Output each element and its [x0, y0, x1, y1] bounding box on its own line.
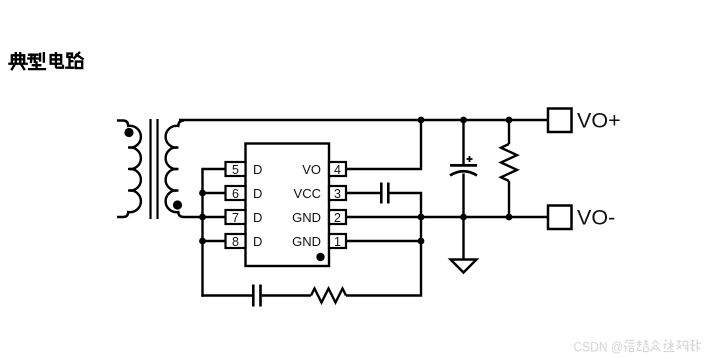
pin 7 square: [226, 210, 246, 224]
wire C3 to R2: [262, 294, 311, 296]
svg-text:3: 3: [334, 187, 341, 201]
pin 4 square: [329, 162, 346, 176]
wire C2 top lead: [462, 120, 464, 165]
svg-text:5: 5: [232, 163, 239, 177]
polarity dot primary: [124, 128, 133, 137]
ground: [451, 260, 477, 273]
wire pin7 stub: [203, 216, 226, 218]
junction GND riser / pin2 rail: [418, 214, 425, 221]
wire pin8 stub: [203, 240, 226, 242]
svg-text:8: 8: [232, 235, 239, 249]
wire C2 bottom lead: [462, 174, 464, 218]
IC pin1 indicator dot: [316, 253, 324, 261]
title 典型电路: [9, 53, 82, 69]
svg-text:7: 7: [232, 211, 239, 225]
pin 6 square: [226, 186, 246, 200]
svg-text:GND: GND: [292, 234, 321, 249]
pin 2 square: [329, 210, 346, 224]
svg-text:4: 4: [334, 163, 341, 177]
wire feedback bottom: [201, 294, 252, 296]
junction D bus / pin6: [199, 190, 206, 197]
junction top rail / R1: [506, 117, 513, 124]
wire ground lead: [462, 217, 464, 262]
wire R1 top lead: [508, 120, 510, 144]
svg-text:GND: GND: [292, 210, 321, 225]
svg-text:2: 2: [334, 211, 341, 225]
wire pin6 stub: [203, 192, 226, 194]
IC U1 body: [246, 144, 330, 267]
terminal VO+: [548, 109, 572, 133]
wire pin4 to top rail: [346, 121, 421, 169]
wire pin3 stub: [346, 192, 380, 194]
polarity dot secondary: [173, 200, 182, 209]
wire C1 to GND riser: [390, 193, 422, 297]
resistor R1 (output load): [501, 144, 517, 181]
junction GND riser / pin1: [418, 238, 425, 245]
svg-text:D: D: [253, 210, 262, 225]
wire R1 bottom lead: [508, 181, 510, 217]
pin 1 square: [329, 234, 346, 248]
svg-text:1: 1: [334, 235, 341, 249]
svg-text:CSDN @: CSDN @: [574, 340, 624, 355]
transformer core: [151, 119, 158, 219]
junction bottom rail / R1: [506, 214, 513, 221]
transformer T1 secondary winding: [166, 121, 204, 218]
junction top rail / pin4 riser: [418, 117, 425, 124]
junction D bus / pin7 / secondary: [199, 214, 206, 221]
pin 5 square: [226, 162, 246, 176]
svg-text:6: 6: [232, 187, 239, 201]
svg-text:VO-: VO-: [577, 206, 615, 230]
transformer T1 primary winding: [117, 121, 141, 218]
capacitor C1 (VCC decoupling): [381, 183, 388, 204]
svg-text:D: D: [253, 186, 262, 201]
terminal VO-: [548, 206, 572, 230]
capacitor C3 (feedback): [253, 285, 260, 307]
wire pin5 stub: [201, 168, 225, 170]
junction bottom rail / C2 / ground: [460, 214, 467, 221]
pin 3 square: [329, 186, 346, 200]
wire pin2 to VO- rail: [346, 216, 548, 218]
watermark CSDN @德锐众达张彬: [574, 340, 624, 355]
capacitor C2 plates: [450, 165, 477, 175]
svg-text:VO: VO: [302, 162, 321, 177]
wire left D bus: [201, 169, 203, 297]
wire R2 to GND riser: [346, 294, 420, 296]
svg-text:D: D: [253, 234, 262, 249]
capacitor C2 (output, polarized) plus sign: [467, 156, 473, 162]
wire pin1 stub: [346, 240, 421, 242]
wire top rail: [179, 119, 548, 121]
svg-text:VCC: VCC: [294, 186, 321, 201]
resistor R2 (feedback): [311, 289, 346, 303]
junction D bus / pin8: [199, 238, 206, 245]
pin 8 square: [226, 234, 246, 248]
junction top rail / C2: [460, 117, 467, 124]
svg-text:D: D: [253, 162, 262, 177]
svg-text:VO+: VO+: [577, 109, 621, 133]
